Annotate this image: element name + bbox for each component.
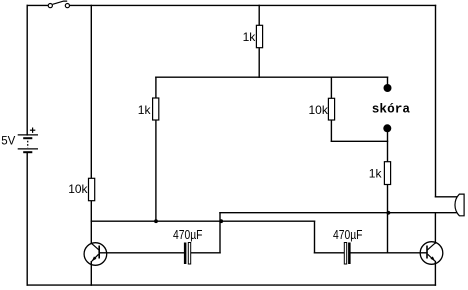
wire C2 right plate to Q2 base [351, 252, 427, 254]
wire mid 1k bottom lead [155, 120, 157, 221]
wire C1 right plate to x=220 [191, 252, 220, 254]
speaker LS1 [455, 194, 464, 216]
resistor R3 10k (middle) [328, 98, 334, 120]
wire rail to top probe dot [387, 77, 389, 85]
svg-text:1k: 1k [138, 103, 152, 117]
svg-text:470µF: 470µF [333, 228, 363, 242]
wire node B to C2 left plate stub [314, 221, 316, 253]
wire speaker top lead [436, 196, 458, 198]
resistor R2 1k (middle left) [153, 98, 159, 120]
wire vertical x=91 bottom (R 10k to Q1 collector) [90, 201, 92, 244]
svg-text:1k: 1k [243, 30, 257, 44]
wire jog at x=220 (node A to C1 right plate) [219, 213, 221, 253]
wire top rail right segment [70, 4, 436, 6]
wire node A horizontal (y=212.5) [220, 212, 458, 214]
svg-text:10k: 10k [309, 103, 329, 117]
junction at mid 1k bottom on node B [154, 219, 158, 223]
wire 10k mid upper lead [330, 77, 332, 98]
wire bottom probe dot to 1k right top [387, 131, 389, 162]
svg-text:470µF: 470µF [173, 228, 203, 242]
svg-text:1k: 1k [369, 167, 383, 181]
wire Q2 collector lead [434, 213, 436, 243]
wire left rail lower (battery -) [26, 152, 28, 285]
transistor Q2 (right, NPN) [420, 242, 443, 265]
resistor R4 10k (left) [89, 178, 95, 200]
wire 10k mid lower lead [330, 120, 332, 141]
wire top 1k lower lead [258, 48, 260, 77]
wire Q1 base lead [99, 252, 184, 254]
capacitor C1 470uF [184, 243, 191, 265]
junction at jog x=220 on node B [219, 219, 223, 223]
wire Q2 emitter lead [434, 262, 436, 286]
wire bottom rail [27, 284, 435, 286]
wire right rail [435, 5, 437, 196]
node skora bottom probe dot [383, 124, 391, 132]
battery B1 5V [18, 128, 38, 154]
wire mid 1k top lead [155, 77, 157, 98]
wire 10k mid to skora node [331, 140, 387, 142]
svg-text:skóra: skóra [372, 102, 410, 117]
capacitor C2 470uF [344, 243, 350, 265]
wire top 1k upper lead [258, 5, 260, 25]
wire second rail (y=77.2) [156, 76, 388, 78]
junction at 1k right bottom on node A [387, 211, 391, 215]
svg-text:10k: 10k [68, 182, 88, 196]
svg-text:5V: 5V [1, 135, 15, 147]
wire left rail upper (battery +) [26, 5, 28, 135]
wire Q1 emitter lead [90, 262, 92, 285]
node skora top probe dot [384, 84, 392, 92]
resistor R5 1k (right) [384, 162, 390, 185]
wire top rail left segment [27, 4, 48, 6]
wire 1k right bottom lead [387, 185, 389, 213]
wire vertical x=91 top (rail to R 10k left) [90, 5, 92, 178]
switch S1 [48, 1, 69, 8]
wire node B horizontal (y=221.2) [91, 220, 314, 222]
wire C2 left plate lead [315, 252, 345, 254]
resistor R1 1k (top) [256, 25, 262, 47]
wire node A to Q2 base net [387, 213, 389, 253]
transistor Q1 (left, NPN mirrored) [84, 243, 107, 266]
